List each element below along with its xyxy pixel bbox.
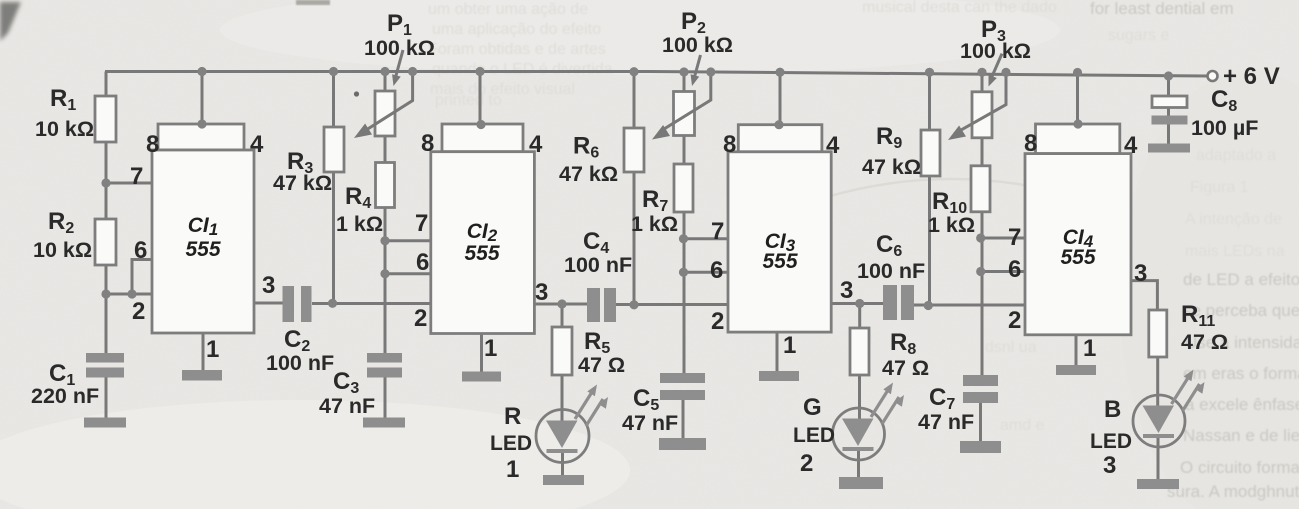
svg-text:100 µF: 100 µF: [1191, 116, 1258, 140]
svg-text:7: 7: [711, 218, 724, 245]
svg-text:10 kΩ: 10 kΩ: [33, 238, 92, 262]
svg-text:em eras o formado: em eras o formado: [1183, 364, 1299, 383]
svg-text:1: 1: [506, 456, 519, 483]
svg-text:Foram obtidas e de artes: Foram obtidas e de artes: [428, 41, 606, 58]
svg-text:3: 3: [1134, 260, 1147, 287]
svg-text:mais LEDs na: mais LEDs na: [1185, 243, 1285, 260]
svg-text:B: B: [1104, 396, 1121, 423]
svg-text:7: 7: [1008, 224, 1021, 251]
svg-text:220 nF: 220 nF: [31, 384, 99, 408]
svg-text:O circuito formado é apr: O circuito formado é apr: [1180, 458, 1299, 477]
svg-text:+ 6 V: + 6 V: [1223, 63, 1280, 90]
svg-text:Nassan e de lied a: Nassan e de lied a: [1183, 426, 1299, 445]
svg-text:A intenção de: A intenção de: [1185, 211, 1282, 228]
svg-text:2: 2: [711, 308, 724, 335]
svg-text:LED: LED: [793, 424, 835, 447]
svg-text:1: 1: [484, 335, 497, 362]
svg-text:47 kΩ: 47 kΩ: [273, 171, 332, 195]
svg-text:6: 6: [710, 257, 723, 284]
svg-text:printed to: printed to: [435, 92, 502, 109]
svg-text:1: 1: [206, 336, 219, 363]
svg-text:100 nF: 100 nF: [857, 259, 925, 283]
svg-text:47 kΩ: 47 kΩ: [559, 162, 618, 186]
svg-text:3: 3: [535, 279, 548, 306]
svg-text:6: 6: [1008, 256, 1021, 283]
svg-text:8: 8: [723, 131, 736, 158]
svg-text:1: 1: [783, 332, 796, 359]
svg-text:6: 6: [416, 249, 429, 276]
svg-text:555: 555: [464, 242, 499, 265]
svg-text:4: 4: [529, 131, 543, 158]
svg-text:sugars e: sugars e: [1108, 27, 1169, 44]
svg-text:6: 6: [134, 237, 147, 264]
svg-text:2: 2: [800, 450, 813, 477]
svg-text:555: 555: [762, 250, 797, 273]
svg-text:7: 7: [130, 163, 143, 190]
svg-text:dsnl ua: dsnl ua: [985, 339, 1037, 356]
svg-text:7: 7: [415, 210, 428, 237]
svg-text:Figura 1: Figura 1: [1190, 179, 1249, 196]
svg-text:100 nF: 100 nF: [266, 351, 334, 375]
svg-text:4: 4: [826, 132, 840, 159]
svg-text:quando o LED é divertida: quando o LED é divertida: [432, 61, 613, 78]
svg-text:8: 8: [146, 131, 159, 158]
svg-text:um obter uma ação de: um obter uma ação de: [428, 1, 588, 18]
svg-text:2: 2: [132, 298, 145, 325]
svg-text:R: R: [504, 403, 521, 430]
svg-text:47 Ω: 47 Ω: [1181, 330, 1228, 354]
svg-text:555: 555: [185, 238, 220, 261]
svg-text:3: 3: [1103, 452, 1116, 479]
svg-text:47 nF: 47 nF: [319, 394, 375, 418]
svg-text:100 kΩ: 100 kΩ: [960, 39, 1031, 63]
svg-text:1 kΩ: 1 kΩ: [336, 212, 383, 236]
svg-text:1 kΩ: 1 kΩ: [928, 213, 975, 237]
svg-text:LED: LED: [1090, 430, 1132, 453]
svg-text:G: G: [803, 394, 822, 421]
svg-text:2: 2: [414, 305, 427, 332]
svg-text:47 Ω: 47 Ω: [882, 356, 929, 380]
svg-text:for least dential em: for least dential em: [1090, 0, 1234, 18]
svg-text:100 kΩ: 100 kΩ: [662, 33, 733, 57]
svg-text:100 kΩ: 100 kΩ: [364, 36, 435, 60]
svg-text:1: 1: [1083, 335, 1096, 362]
svg-text:8: 8: [421, 130, 434, 157]
svg-text:3: 3: [262, 272, 275, 299]
svg-text:de LED a efeito s: de LED a efeito s: [1183, 270, 1299, 289]
svg-text:1 kΩ: 1 kΩ: [631, 212, 678, 236]
svg-text:10 kΩ: 10 kΩ: [35, 117, 94, 141]
svg-text:47 Ω: 47 Ω: [578, 353, 625, 377]
svg-text:uma aplicação do efeito: uma aplicação do efeito: [432, 21, 601, 38]
svg-text:4: 4: [250, 131, 264, 158]
svg-text:8: 8: [1024, 130, 1037, 157]
svg-text:47 kΩ: 47 kΩ: [862, 155, 921, 179]
svg-text:3: 3: [840, 277, 853, 304]
svg-text:sura. A modghnuter alimentado: sura. A modghnuter alimentado: [1167, 482, 1299, 501]
svg-text:555: 555: [1060, 246, 1095, 269]
svg-text:100 nF: 100 nF: [564, 253, 632, 277]
svg-text:4: 4: [1124, 132, 1138, 159]
svg-text:musical desta can the dado: musical desta can the dado: [862, 0, 1057, 16]
svg-text:LED: LED: [490, 432, 532, 455]
svg-text:adaptado a: adaptado a: [1196, 147, 1276, 164]
svg-text:47 nF: 47 nF: [918, 410, 974, 434]
svg-text:a excele ênfase de: a excele ênfase de: [1185, 395, 1299, 414]
svg-text:2: 2: [1008, 307, 1021, 334]
svg-text:amd e: amd e: [1000, 417, 1045, 434]
svg-text:47 nF: 47 nF: [622, 411, 678, 435]
